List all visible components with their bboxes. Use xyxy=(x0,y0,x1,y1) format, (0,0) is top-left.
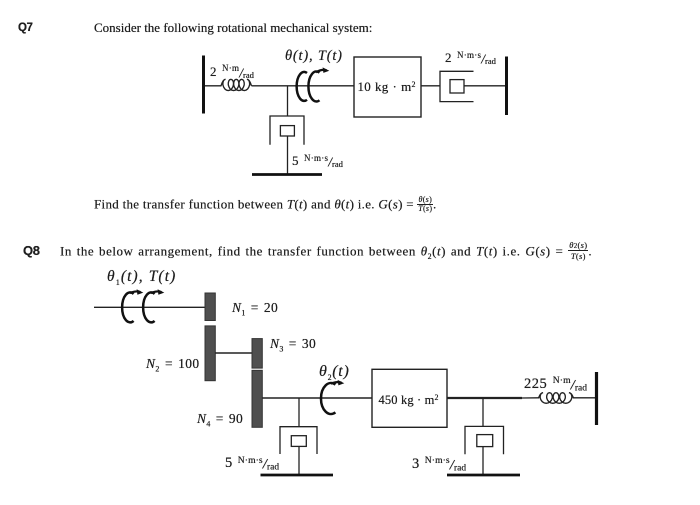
wire: spring to wall xyxy=(573,397,597,399)
ground under damper D3 xyxy=(261,474,334,477)
inertia 450 box xyxy=(372,369,447,427)
damper D3 housing (5 N·m·s/rad) xyxy=(280,427,317,454)
label theta(t),T(t) xyxy=(285,48,343,65)
wire: spring to inertia box xyxy=(252,85,355,87)
gear N3 xyxy=(252,339,262,369)
damper D3 rod xyxy=(298,446,300,475)
spring 225 N·m/rad xyxy=(539,393,574,404)
wall right Q8 xyxy=(595,372,598,425)
label N3=30 xyxy=(270,336,316,354)
Q7 prompt text xyxy=(94,20,372,36)
damper D4 rod xyxy=(482,447,484,475)
label inertia 10 kg·m2 xyxy=(358,79,416,95)
question label Q7 xyxy=(18,22,33,34)
damper D3 piston xyxy=(291,436,306,447)
label damper 5 N·m·s/rad (Q7) xyxy=(292,152,343,171)
torque arrow arcs theta(t),T(t) xyxy=(297,70,327,102)
spring K=2 N·m/rad xyxy=(221,79,252,90)
question label Q8 xyxy=(23,243,40,258)
wall right Q7 xyxy=(505,57,508,116)
wire: wall to spring xyxy=(205,85,222,87)
wire: junction down to damper D4 xyxy=(482,398,484,426)
wire: box to spring (thicker) xyxy=(447,397,522,399)
wire: junction down to damper D3 xyxy=(298,398,300,427)
label N4=90 xyxy=(197,411,243,429)
ground under damper D4 xyxy=(447,474,520,477)
torque arc 2 xyxy=(143,291,161,322)
gear N1 xyxy=(205,293,215,321)
label spring 2 N·m/rad xyxy=(210,63,254,82)
inertia J=10 box xyxy=(354,57,421,117)
wire: junction down to damper D1 xyxy=(287,86,289,116)
label N1=20 xyxy=(232,300,278,318)
wire: box to damper D2 xyxy=(421,85,440,87)
gear N2 xyxy=(205,326,215,381)
damper D1 rod xyxy=(287,136,289,175)
label theta2(t) xyxy=(319,363,349,382)
label damper 5 N·m·s/rad (Q8) xyxy=(225,454,279,474)
damper D2 housing (2 N·m·s/rad) xyxy=(440,71,474,101)
label damper 3 N·m·s/rad (Q8) xyxy=(412,455,466,475)
label damper 2 N·m·s/rad (Q7) xyxy=(445,49,496,68)
label N2=100 xyxy=(146,356,199,374)
label theta1(t),T(t) xyxy=(107,268,176,287)
torque arc theta2(t) xyxy=(321,382,342,414)
damper D2 rod xyxy=(464,85,507,87)
gear N4 xyxy=(252,370,262,427)
arrowhead arc2 xyxy=(158,289,165,295)
arrowhead arc1 xyxy=(137,289,144,295)
wall left Q7 xyxy=(202,56,205,114)
Q7 find text xyxy=(94,196,437,213)
label inertia 450 kg·m2 xyxy=(379,393,439,408)
wire: to spring xyxy=(522,397,539,399)
input shaft Q8 xyxy=(94,306,205,308)
ground under damper D1 xyxy=(252,173,322,176)
torque arc 1 theta1(t),T(t) xyxy=(122,291,140,322)
damper D1 piston xyxy=(280,126,294,136)
output shaft N4 to box xyxy=(262,397,372,399)
arrowhead of torque arc xyxy=(323,67,330,73)
shaft N2 to N3 xyxy=(215,352,252,354)
damper D4 housing (3 N·m·s/rad) xyxy=(465,426,504,454)
arrowhead theta2 xyxy=(338,380,345,386)
Q8 prompt text xyxy=(60,241,592,261)
damper D4 piston xyxy=(477,435,493,447)
damper D2 piston xyxy=(450,80,464,93)
label spring 225 N·m/rad xyxy=(524,375,587,395)
damper D1 housing (5 N·m·s/rad) xyxy=(270,116,304,145)
